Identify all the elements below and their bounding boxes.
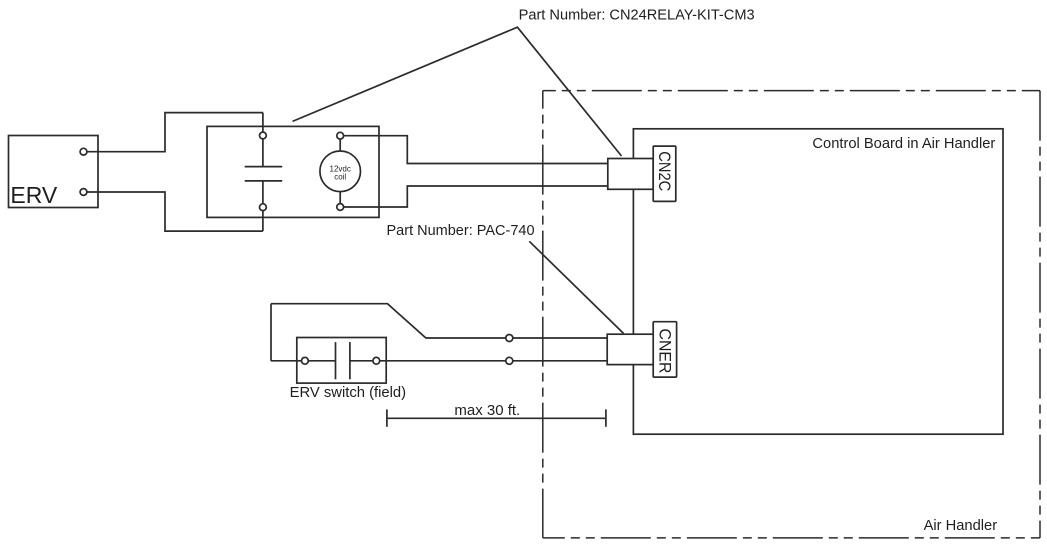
- svg-text:Air Handler: Air Handler: [924, 518, 998, 534]
- svg-text:CNER: CNER: [655, 329, 673, 374]
- svg-text:Control Board in Air Handler: Control Board in Air Handler: [812, 136, 995, 152]
- svg-text:CN2C: CN2C: [655, 151, 673, 191]
- svg-text:Part Number: CN24RELAY-KIT-CM3: Part Number: CN24RELAY-KIT-CM3: [519, 8, 755, 24]
- svg-text:Part Number: PAC-740: Part Number: PAC-740: [387, 223, 535, 239]
- svg-text:ERV switch (field): ERV switch (field): [290, 385, 407, 401]
- svg-text:ERV: ERV: [10, 182, 58, 208]
- svg-text:coil: coil: [334, 173, 346, 182]
- svg-text:max 30 ft.: max 30 ft.: [454, 402, 520, 419]
